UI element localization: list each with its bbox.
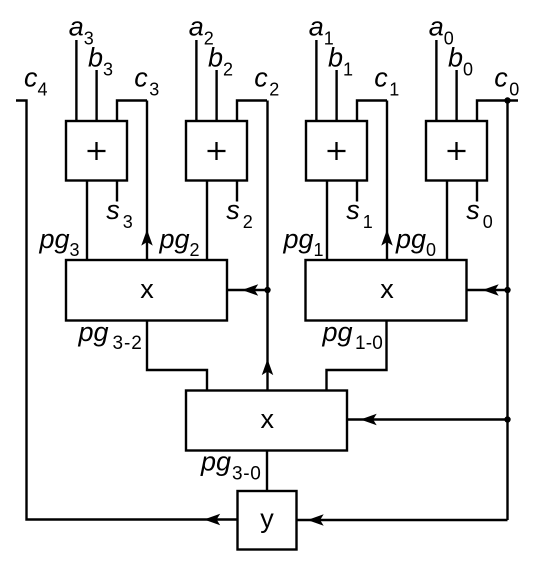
- wire c0 stub: [477, 101, 518, 122]
- node c0 junction lower: [504, 416, 510, 422]
- wire c2 vertical: [266, 101, 268, 391]
- x block right (pg 1-0): [306, 260, 467, 321]
- arrow c0 branch left: [484, 285, 498, 295]
- wire pg3-2 jog: [147, 321, 207, 391]
- wire a2: [195, 40, 197, 121]
- wire s3 stub: [116, 181, 118, 202]
- wire a0: [435, 40, 437, 121]
- wire c2 stub: [237, 101, 267, 122]
- wire c3 vertical: [146, 101, 148, 261]
- wire s2 stub: [236, 181, 238, 202]
- wire pg0 output: [446, 181, 448, 261]
- wire c4: [16, 101, 238, 520]
- svg-text:3-2: 3-2: [113, 333, 143, 354]
- plus symbol bit 0: [448, 150, 466, 152]
- svg-text:pg: pg: [200, 447, 231, 477]
- wire pg1-0 jog: [327, 321, 387, 391]
- wire c1 stub: [357, 101, 387, 122]
- adder U2 (+) box bit 2: [186, 121, 247, 181]
- wire pg3-0: [266, 451, 268, 492]
- adder U3 (+) box bit 1: [306, 121, 367, 181]
- wire b2: [215, 70, 217, 121]
- wire b3: [95, 70, 97, 121]
- wire c0 branch to bottom x block: [347, 418, 508, 420]
- wire s1 stub: [356, 181, 358, 202]
- wire a3: [75, 40, 77, 121]
- arrow c2 branch left: [244, 285, 258, 295]
- x block left (pg 3-2): [66, 260, 227, 321]
- arrow c0 branch into bottom x block: [362, 415, 376, 425]
- svg-text:x: x: [140, 274, 154, 304]
- wire c0 bottom to y block: [297, 519, 508, 521]
- node c0 junction mid: [504, 287, 510, 293]
- wire b1: [335, 70, 337, 121]
- adder U4 (+) box bit 0: [426, 121, 487, 181]
- svg-text:y: y: [260, 504, 274, 534]
- svg-text:x: x: [260, 404, 274, 434]
- arrow c1 up: [382, 231, 392, 245]
- arrow c4 left: [206, 515, 220, 525]
- wire a1: [315, 40, 317, 121]
- svg-text:1-0: 1-0: [355, 333, 383, 354]
- plus symbol bit 2: [208, 150, 226, 152]
- svg-text:x: x: [380, 274, 394, 304]
- x block bottom (pg 3-0): [186, 391, 347, 451]
- wire c1 vertical: [386, 101, 388, 261]
- wire pg3 output: [86, 181, 88, 261]
- wire c0 branch to right x block: [467, 289, 508, 291]
- arrow c3 up: [142, 231, 152, 245]
- svg-text:pg: pg: [78, 317, 109, 347]
- wire b0: [455, 70, 457, 121]
- plus symbol bit 3: [88, 150, 106, 152]
- wire c2 branch to left x block: [227, 289, 268, 291]
- node c2 junction: [264, 287, 270, 293]
- wire s0 stub: [476, 181, 478, 202]
- svg-text:3-0: 3-0: [232, 463, 262, 484]
- wire pg1 output: [326, 181, 328, 261]
- arrow c2 up: [263, 361, 273, 375]
- wire c3 stub: [117, 101, 147, 122]
- wire c0 vertical: [506, 101, 508, 521]
- svg-text:pg: pg: [322, 317, 353, 347]
- adder U1 (+) box bit 3: [66, 121, 127, 181]
- node c0 junction: [504, 97, 510, 103]
- wire pg2 output: [206, 181, 208, 261]
- plus symbol bit 1: [328, 150, 346, 152]
- arrow c0 into y block: [309, 515, 323, 525]
- y block: [238, 491, 297, 550]
